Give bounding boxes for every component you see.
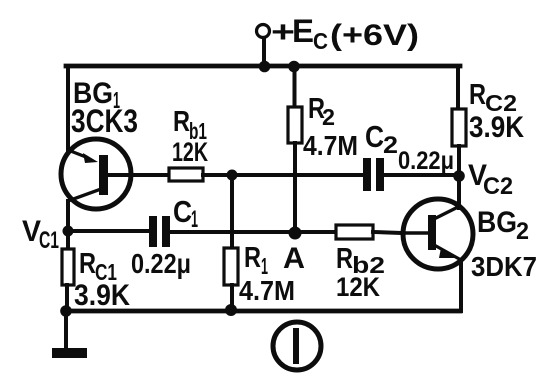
- wire right edge (top rail to RC2): [456, 66, 460, 110]
- svg-text:12K: 12K: [336, 272, 380, 302]
- wire BG1 base lead: [107, 173, 169, 177]
- svg-text:C: C: [313, 28, 328, 54]
- node VC1: [63, 226, 74, 237]
- figure number 1: [273, 322, 321, 370]
- node R1 bottom: [225, 304, 237, 316]
- node EC junction: [259, 61, 271, 73]
- svg-text:3DK7: 3DK7: [471, 251, 537, 282]
- svg-text:E: E: [292, 13, 314, 49]
- node R2 top junction: [288, 61, 300, 73]
- capacitor C2: [363, 158, 384, 191]
- wire C1 to Rb2: [170, 230, 337, 234]
- svg-text:12K: 12K: [172, 137, 208, 167]
- svg-text:C: C: [365, 119, 384, 154]
- svg-text:R: R: [79, 248, 96, 280]
- wire VC1 to C1: [68, 229, 149, 233]
- wire bottom rail: [66, 309, 460, 314]
- node Rb1/R1/C2 junction: [227, 170, 238, 181]
- wire VC1 to RC1: [66, 231, 70, 249]
- terminal +EC: [257, 25, 270, 38]
- transistor Q2 BG2: [403, 199, 473, 269]
- svg-text:4.7M: 4.7M: [239, 275, 295, 306]
- resistor RC1: [62, 249, 74, 285]
- svg-text:2: 2: [322, 104, 335, 130]
- wire R2 bottom lead to node A: [293, 143, 297, 233]
- svg-text:C: C: [173, 194, 192, 229]
- wire VC2 to BG2 collector: [457, 175, 461, 208]
- node ground junction: [60, 305, 72, 317]
- svg-text:0.22μ: 0.22μ: [131, 248, 191, 279]
- svg-text:C2: C2: [483, 173, 513, 200]
- resistor Rb2: [336, 225, 373, 239]
- svg-text:3.9K: 3.9K: [74, 279, 130, 312]
- wire top rail: [66, 64, 460, 69]
- wire C2 to VC2: [384, 173, 458, 177]
- capacitor C1: [149, 216, 170, 247]
- svg-text:R: R: [173, 106, 190, 138]
- wire RC1 bottom lead: [65, 285, 69, 311]
- resistor RC2: [452, 109, 466, 146]
- svg-text:3.9K: 3.9K: [469, 111, 524, 144]
- wire BG1 collector down: [66, 201, 70, 231]
- svg-text:(+6V): (+6V): [330, 19, 419, 52]
- wire R1 bottom lead: [230, 285, 234, 311]
- resistor R1: [224, 248, 238, 285]
- svg-text:R: R: [469, 79, 486, 111]
- transistor Q1 BG1: [61, 139, 131, 209]
- wire BG2 emitter down: [459, 260, 463, 311]
- svg-text:R: R: [336, 243, 353, 275]
- svg-text:2: 2: [516, 218, 529, 245]
- wire RC2 bottom lead: [457, 146, 461, 175]
- svg-text:3CK3: 3CK3: [71, 103, 138, 139]
- wire Rb2 to BG2 base: [373, 232, 403, 233]
- svg-text:2: 2: [383, 132, 398, 159]
- svg-text:BG: BG: [477, 206, 517, 239]
- wire R2 top lead: [293, 66, 297, 107]
- wire left edge (top rail to BG1 emitter): [66, 66, 70, 152]
- node VC2: [453, 170, 465, 182]
- svg-text:R: R: [244, 242, 261, 274]
- node A: [289, 227, 302, 240]
- svg-text:C1: C1: [39, 227, 59, 254]
- wire ground stem: [64, 311, 68, 350]
- svg-text:A: A: [283, 242, 305, 275]
- resistor R2: [288, 107, 302, 143]
- svg-text:1: 1: [191, 206, 198, 233]
- svg-text:0.22μ: 0.22μ: [398, 147, 454, 175]
- wire EC stem: [262, 38, 266, 66]
- wire Rb1 to C2: [203, 173, 363, 177]
- wire node down to R1: [230, 175, 234, 248]
- resistor Rb1: [169, 168, 203, 181]
- svg-text:4.7M: 4.7M: [303, 130, 358, 161]
- ground: [52, 348, 87, 358]
